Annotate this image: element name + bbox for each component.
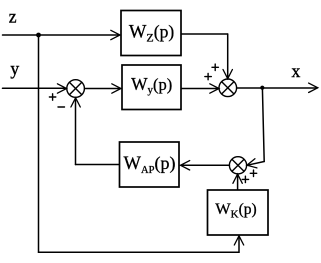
block WZ: [121, 11, 181, 56]
wire WZ output horizontal: [181, 33, 228, 35]
sign plus at sum3 below: [242, 178, 248, 180]
wire WZ output vertical down to sum2: [227, 34, 229, 79]
arrowhead into sum2 from left: [210, 84, 219, 93]
sign plus at sum3 right: [250, 172, 256, 174]
sign minus at sum1: [58, 106, 65, 108]
sign plus at sum1: [49, 96, 55, 98]
wire WK output up to sum3: [237, 175, 239, 190]
summing junction sum2: [219, 79, 237, 97]
svg-text:z: z: [9, 7, 17, 27]
wire Wy to sum2: [181, 88, 219, 90]
node branch on output line: [260, 86, 264, 90]
block WAP: [120, 142, 180, 187]
block Wy: [122, 65, 181, 110]
arrowhead into sum2 from top: [223, 70, 232, 79]
wire sum1 to Wy: [85, 88, 120, 90]
block WK: [208, 190, 269, 235]
arrowhead into WK from below: [234, 236, 243, 245]
wire bottom horizontal: [39, 251, 240, 253]
wire WAP feedback vertical up to sum1: [75, 99, 77, 165]
node branch on z line: [36, 33, 41, 38]
summing junction sum1: [67, 80, 85, 98]
wire up into WK block: [238, 237, 240, 253]
summing junction sum3: [229, 157, 246, 174]
svg-text:y: y: [10, 59, 19, 79]
wire into sum3 from right: [248, 162, 265, 166]
wire z input: [3, 34, 120, 36]
arrowhead into sum3 from right: [247, 159, 257, 168]
arrowhead into sum1: [57, 84, 66, 93]
arrowhead output x: [309, 83, 318, 92]
wire output branch vertical down: [262, 88, 264, 162]
svg-text:x: x: [292, 61, 301, 81]
wire z branch vertical down: [38, 35, 40, 252]
sign plus at sum2 top: [212, 66, 218, 68]
arrowhead into WZ: [111, 30, 120, 39]
wire WAP output horizontal: [76, 164, 120, 166]
wire sum3 to WAP: [181, 164, 229, 166]
arrowhead into sum3 from below: [233, 174, 242, 183]
sign plus at sum2 left: [205, 76, 211, 78]
arrowhead into Wy: [112, 84, 121, 93]
wire y input: [3, 87, 67, 89]
wire sum2 to output x: [237, 87, 317, 89]
arrowhead into WAP: [181, 161, 190, 170]
arrowhead into sum1 from below: [71, 98, 80, 107]
